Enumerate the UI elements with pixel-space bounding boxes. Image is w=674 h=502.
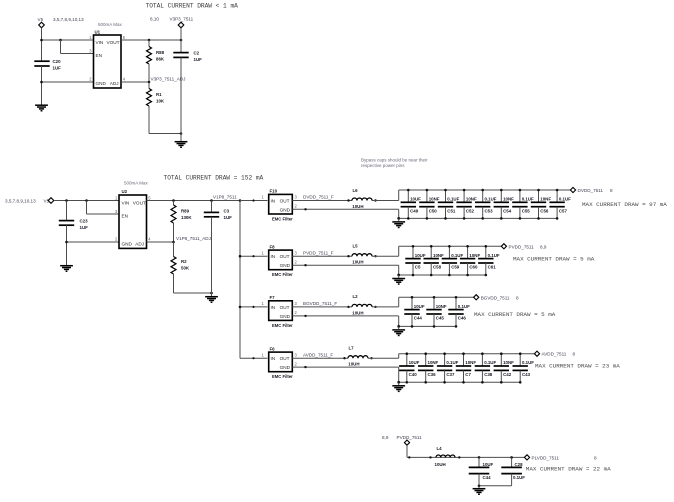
wire GND net (U2) [67, 241, 120, 243]
svg-text:AVDD_7511: AVDD_7511 [542, 352, 567, 357]
svg-text:C38: C38 [484, 372, 493, 377]
svg-text:4: 4 [148, 237, 151, 242]
capacitor C46 [448, 297, 463, 326]
resistor R2 [171, 242, 176, 293]
svg-text:10UH: 10UH [352, 310, 363, 315]
junction C55 top rail [519, 189, 522, 192]
capacitor C5 [405, 246, 420, 275]
svg-text:F8: F8 [270, 244, 276, 249]
junction C57 top rail [556, 189, 559, 192]
svg-text:C56: C56 [540, 208, 549, 213]
capacitor C60 [460, 246, 475, 275]
EMC filter F10 [269, 194, 293, 214]
svg-text:U2: U2 [122, 189, 128, 194]
junction bottom rail corner (F10 bank) [397, 217, 400, 220]
svg-text:C7: C7 [465, 372, 471, 377]
capacitor C28 [501, 457, 522, 485]
capacitor C61 [478, 246, 493, 275]
junction C60 bottom rail [466, 274, 469, 277]
junction C49 bottom rail [407, 217, 410, 220]
svg-text:C23: C23 [80, 219, 89, 224]
svg-text:EMC Filter: EMC Filter [272, 374, 293, 379]
ground (below C23) [60, 266, 73, 272]
junction C5 top rail [412, 245, 415, 248]
svg-text:GND: GND [122, 241, 133, 246]
svg-text:0.1UF: 0.1UF [513, 475, 525, 480]
svg-text:0.1UF: 0.1UF [458, 304, 470, 309]
svg-text:5: 5 [148, 195, 151, 200]
ground (bottom circuit) [473, 489, 486, 495]
inductor L5 [352, 254, 372, 257]
capacitor C3 [204, 201, 219, 217]
wire VIN net horizontal [42, 39, 94, 41]
svg-text:10K: 10K [156, 99, 165, 104]
capacitor C52 [456, 190, 471, 218]
wire C3 ground stub [211, 293, 213, 296]
inductor L4 [436, 455, 455, 457]
capacitor C59 [442, 246, 457, 275]
svg-text:2: 2 [295, 310, 298, 315]
port V5 (main regulator input) [48, 198, 54, 204]
svg-text:C59: C59 [451, 265, 460, 270]
svg-text:GND: GND [280, 208, 291, 213]
svg-text:GND: GND [96, 81, 107, 86]
wire C2 bottom [180, 57, 182, 141]
svg-text:3: 3 [295, 195, 298, 200]
capacitor C38 [475, 354, 490, 383]
svg-text:3: 3 [115, 209, 118, 214]
wire F6 OUT to inductor L7 [292, 357, 348, 359]
capacitor C54 [494, 190, 509, 218]
wire C3 bottom [211, 217, 213, 293]
junction C58 bottom rail [430, 274, 433, 277]
svg-text:8,9: 8,9 [382, 435, 389, 440]
junction C58 top rail [430, 245, 433, 248]
svg-text:IN: IN [271, 305, 276, 310]
wire ground stub (F8 bank) [398, 275, 400, 278]
regulator U2 [119, 195, 147, 248]
junction C52 bottom rail [463, 217, 466, 220]
wire divider bottom [149, 133, 181, 135]
wire V3P3 port vertical [180, 28, 182, 53]
svg-text:C57: C57 [559, 208, 568, 213]
svg-text:10UH: 10UH [348, 362, 359, 367]
wire drop to bottom rail (F8) [398, 265, 400, 275]
capacitor C37 [437, 354, 452, 383]
svg-text:MAX CURRENT DRAW = 23 mA: MAX CURRENT DRAW = 23 mA [535, 363, 620, 370]
wire ground stub (F7 bank) [398, 326, 400, 329]
svg-text:GND: GND [280, 263, 291, 268]
wire L6 to cap bank (F10) [372, 200, 399, 202]
capacitor C36 [418, 354, 433, 383]
svg-text:EN: EN [96, 53, 103, 58]
svg-text:C58: C58 [433, 265, 442, 270]
capacitor C55 [512, 190, 527, 218]
svg-text:500mA Max: 500mA Max [98, 22, 123, 27]
svg-text:PVDD_7511_F: PVDD_7511_F [303, 250, 334, 255]
wire bottom ground rail (F8 bank) [399, 274, 486, 276]
junction C7 bottom rail [462, 381, 465, 384]
capacitor C45 [426, 297, 441, 326]
junction on F7 IN wire [252, 306, 254, 308]
ground (below C20) [35, 105, 48, 111]
svg-text:EMC Filter: EMC Filter [272, 323, 293, 328]
svg-text:C60: C60 [469, 265, 478, 270]
inductor L6 [352, 198, 372, 200]
svg-text:C51: C51 [447, 208, 456, 213]
svg-text:Bypass caps should be near the: Bypass caps should be near their [361, 158, 428, 163]
svg-text:L2: L2 [353, 294, 359, 299]
port V3P3_7511 [178, 22, 184, 28]
EMC filter F8 [269, 250, 293, 270]
port BGVDD_7511 [474, 295, 479, 300]
junction divider/C2 bottom [180, 132, 183, 135]
svg-text:1: 1 [262, 352, 265, 357]
junction divider/C3 bottom [210, 292, 213, 295]
svg-text:10NF: 10NF [466, 197, 477, 202]
capacitor C50 [419, 190, 434, 218]
svg-text:10UH: 10UH [435, 462, 446, 467]
wire top power rail (F6 bank, net AVDD_7511) [399, 353, 535, 355]
svg-text:86K: 86K [156, 57, 165, 62]
svg-text:0.1UF: 0.1UF [451, 253, 463, 258]
junction on F8 GND wire [304, 264, 306, 266]
capacitor C51 [438, 190, 453, 218]
junction bus tap [239, 199, 242, 202]
svg-text:DVDD_7511_F: DVDD_7511_F [303, 195, 334, 200]
svg-text:0.1UF: 0.1UF [522, 197, 534, 202]
wire rise to top rail (F7) [398, 297, 400, 307]
svg-text:OUT: OUT [280, 254, 290, 259]
wire bottom ground rail (F7 bank) [399, 325, 456, 327]
svg-text:10NF: 10NF [433, 253, 444, 258]
svg-text:BGVDD_7511_F: BGVDD_7511_F [303, 301, 337, 306]
svg-text:F6: F6 [270, 346, 276, 351]
svg-text:8,9: 8,9 [540, 244, 547, 249]
svg-text:4: 4 [123, 77, 126, 82]
wire C20 bottom to ground [41, 66, 43, 105]
svg-text:ADJ: ADJ [110, 81, 119, 86]
port DVDD_7511 [570, 187, 575, 192]
svg-text:8: 8 [610, 188, 613, 193]
svg-text:GND: GND [280, 314, 291, 319]
svg-text:0.1UF: 0.1UF [446, 360, 458, 365]
junction C44 tap [478, 456, 481, 459]
svg-text:2: 2 [295, 204, 298, 209]
junction at L2 right terminal [374, 306, 376, 308]
svg-text:V3P3_7511: V3P3_7511 [170, 17, 194, 22]
wire L5 to cap bank (F8) [372, 255, 399, 257]
svg-text:0.1UF: 0.1UF [522, 360, 534, 365]
junction R88/R1/ADJ [148, 81, 151, 84]
junction C45 top rail [433, 296, 436, 299]
svg-text:EMC Filter: EMC Filter [272, 272, 293, 277]
svg-text:VOUT: VOUT [107, 40, 120, 45]
junction C51 top rail [444, 189, 447, 192]
svg-text:U1: U1 [95, 30, 101, 35]
wire ground stub (bottom circuit) [478, 486, 480, 488]
junction EN tap (U2) [85, 199, 88, 202]
junction at L5 left terminal [347, 255, 349, 257]
svg-text:VIN: VIN [122, 200, 130, 205]
capacitor C40 [399, 354, 414, 383]
svg-text:3,5,7,8,9,10,13: 3,5,7,8,9,10,13 [53, 17, 84, 22]
wire F7 GND to cap bank [292, 315, 398, 317]
svg-text:V1P8_7511: V1P8_7511 [213, 194, 237, 199]
svg-text:1: 1 [262, 301, 265, 306]
svg-text:1UF: 1UF [80, 225, 89, 230]
junction C40 top rail [406, 352, 409, 355]
wire drop to bottom rail (F7) [398, 316, 400, 327]
wire ground stub (F6 bank) [398, 382, 400, 385]
wire ADJ of U2 [147, 241, 174, 243]
wire C28 bottom to C44 bottom [479, 485, 512, 487]
wire F8 OUT to inductor L5 [292, 255, 352, 257]
wire bus to F10 IN [240, 200, 268, 202]
wire divider bottom (U2) [174, 292, 212, 294]
junction at PVDD corner [408, 456, 410, 458]
svg-text:C2: C2 [194, 51, 200, 56]
svg-text:OUT: OUT [280, 305, 290, 310]
junction on F6 IN wire [252, 357, 254, 359]
EMC filter F7 [269, 301, 293, 321]
capacitor C58 [424, 246, 439, 275]
svg-text:C49: C49 [410, 208, 419, 213]
svg-text:1UF: 1UF [224, 215, 233, 220]
svg-text:10UH: 10UH [352, 260, 363, 265]
svg-text:TOTAL CURRENT DRAW < 1 mA: TOTAL CURRENT DRAW < 1 mA [146, 2, 239, 9]
wire F10 GND to cap bank [292, 208, 398, 210]
svg-text:C5: C5 [415, 265, 421, 270]
junction C61 top rail [485, 245, 488, 248]
junction C56 top rail [537, 189, 540, 192]
svg-text:F10: F10 [270, 189, 278, 194]
junction C38 top rail [481, 352, 484, 355]
svg-text:EMC Filter: EMC Filter [272, 217, 293, 222]
svg-text:8: 8 [594, 455, 597, 460]
svg-text:PVDD_7511: PVDD_7511 [509, 244, 535, 249]
junction on F10 GND wire [304, 208, 306, 210]
svg-text:C50: C50 [429, 208, 438, 213]
junction bottom rail corner (F6 bank) [397, 381, 400, 384]
port AVDD_7511 [534, 351, 539, 356]
wire ground stub (F10 bank) [398, 218, 400, 221]
svg-text:1: 1 [262, 195, 265, 200]
junction R89 top [172, 199, 175, 202]
svg-text:10UF: 10UF [410, 197, 421, 202]
junction C51 bottom rail [444, 217, 447, 220]
wire top power rail (F8 bank, net PVDD_7511) [399, 245, 502, 247]
svg-text:MAX CURRENT DRAW = 5 mA: MAX CURRENT DRAW = 5 mA [513, 256, 595, 263]
inductor L7 [348, 356, 368, 358]
wire drop to bottom rail (F6) [398, 367, 400, 382]
junction L4 right terminal [458, 456, 460, 458]
svg-text:0.1UF: 0.1UF [484, 360, 496, 365]
svg-text:C43: C43 [522, 372, 531, 377]
svg-text:10NF: 10NF [503, 360, 514, 365]
svg-text:C46: C46 [458, 316, 467, 321]
junction C53 top rail [481, 189, 484, 192]
port PLVDD_7511 [524, 455, 529, 460]
svg-text:10UH: 10UH [352, 204, 363, 209]
svg-text:respective power pins: respective power pins [361, 163, 405, 168]
svg-text:R2: R2 [181, 259, 187, 264]
svg-text:BGVDD_7511: BGVDD_7511 [481, 295, 510, 300]
svg-text:10NF: 10NF [540, 197, 551, 202]
svg-text:IN: IN [271, 199, 276, 204]
capacitor C2 [173, 53, 188, 58]
resistor R89 [171, 201, 176, 243]
junction at V5/VIN [40, 39, 43, 42]
wire F8 GND to cap bank [292, 264, 398, 266]
wire L2 to cap bank (F7) [372, 306, 399, 308]
resistor R88 [147, 40, 152, 82]
junction on F10 IN wire [252, 199, 254, 201]
junction C60 top rail [466, 245, 469, 248]
junction EN tap [59, 39, 62, 42]
junction C61 bottom rail [485, 274, 488, 277]
svg-text:1UF: 1UF [53, 65, 62, 70]
svg-text:R89: R89 [181, 209, 190, 214]
svg-text:10UF: 10UF [415, 253, 426, 258]
capacitor C53 [475, 190, 490, 218]
junction C59 top rail [448, 245, 451, 248]
svg-text:ADJ: ADJ [135, 241, 144, 246]
junction on F8 IN wire [252, 255, 254, 257]
svg-text:2: 2 [115, 237, 118, 242]
port PVDD_7511 [501, 244, 506, 249]
junction C37 bottom rail [443, 381, 446, 384]
wire VOUT of U1 [121, 39, 181, 41]
svg-text:10NF: 10NF [428, 360, 439, 365]
svg-text:10NF: 10NF [436, 304, 447, 309]
svg-text:3,5,7,8,9,10,13: 3,5,7,8,9,10,13 [5, 199, 36, 204]
wire V5 to U2 VIN [54, 200, 119, 202]
junction C40 bottom rail [406, 381, 409, 384]
svg-text:1: 1 [115, 195, 118, 200]
junction C55 bottom rail [519, 217, 522, 220]
svg-text:3: 3 [89, 48, 92, 53]
wire rise to top rail (F10) [398, 190, 400, 201]
junction C54 top rail [500, 189, 503, 192]
wire bus to F7 IN [240, 306, 268, 308]
junction at L6 left terminal [347, 199, 349, 201]
svg-text:1: 1 [89, 35, 92, 40]
svg-text:IN: IN [271, 254, 276, 259]
junction C36 top rail [424, 352, 427, 355]
capacitor C56 [531, 190, 546, 218]
svg-text:L5: L5 [353, 244, 359, 249]
svg-text:VIN: VIN [96, 40, 104, 45]
svg-text:C54: C54 [503, 208, 512, 213]
svg-text:C40: C40 [409, 372, 418, 377]
port PVDD_7511 (bottom) [404, 440, 409, 445]
junction bottom rail corner (F8 bank) [397, 274, 400, 277]
svg-text:L4: L4 [437, 446, 443, 451]
svg-text:MAX CURRENT DRAW = 5 mA: MAX CURRENT DRAW = 5 mA [474, 311, 556, 318]
junction C53 bottom rail [481, 217, 484, 220]
svg-text:8: 8 [573, 352, 576, 357]
junction bottom rail corner (F7 bank) [397, 325, 400, 328]
junction R88 top [148, 39, 151, 42]
svg-text:50K: 50K [181, 266, 190, 271]
capacitor C42 [494, 354, 509, 383]
junction C43 top rail [519, 352, 522, 355]
junction at L7 left terminal [343, 357, 345, 359]
wire C23 bottom to ground [66, 225, 68, 265]
junction C59 bottom rail [448, 274, 451, 277]
wire EN branch (U2) [87, 201, 120, 215]
svg-text:3: 3 [295, 250, 298, 255]
wire top power rail (F7 bank, net BGVDD_7511) [399, 296, 474, 298]
svg-text:C37: C37 [446, 372, 455, 377]
wire bus to F8 IN [240, 255, 268, 257]
svg-text:R1: R1 [156, 92, 162, 97]
wire bottom ground rail (F10 bank) [399, 217, 557, 219]
junction C5 bottom rail [412, 274, 415, 277]
svg-text:C36: C36 [428, 372, 437, 377]
wire EN branch [61, 40, 94, 54]
junction R89/R2/ADJ [172, 241, 175, 244]
junction C43 bottom rail [519, 381, 522, 384]
junction on F6 GND wire [304, 366, 306, 368]
wire PVDD to PLVDD net [407, 456, 524, 458]
wire drop to bottom rail (F10) [398, 209, 400, 218]
svg-text:10NF: 10NF [465, 360, 476, 365]
junction C56 bottom rail [537, 217, 540, 220]
capacitor C44 [469, 457, 490, 485]
svg-text:8: 8 [516, 295, 519, 300]
junction bus at F8 [239, 255, 242, 258]
capacitor C23 [59, 201, 74, 226]
junction C38 bottom rail [481, 381, 484, 384]
capacitor C49 [401, 190, 416, 218]
svg-text:C44: C44 [483, 475, 492, 480]
junction C46 bottom rail [455, 325, 458, 328]
svg-text:2: 2 [89, 77, 92, 82]
svg-text:3: 3 [295, 352, 298, 357]
junction C20/GND [40, 81, 43, 84]
wire L7 to cap bank (F6) [368, 357, 399, 359]
wire top power rail (F10 bank, net DVDD_7511) [399, 189, 571, 191]
ground (F8 bank) [392, 279, 405, 285]
svg-text:8,10: 8,10 [150, 17, 159, 22]
svg-text:3: 3 [295, 301, 298, 306]
wire V5 vertical [41, 28, 43, 61]
svg-text:0.1UF: 0.1UF [447, 197, 459, 202]
wire GND net horizontal (top reg) [42, 81, 94, 83]
svg-text:130K: 130K [181, 215, 192, 220]
svg-text:C3: C3 [224, 208, 230, 213]
junction C23 tap [65, 199, 68, 202]
ground (F6 bank) [392, 386, 405, 392]
junction at L6 right terminal [374, 199, 376, 201]
svg-text:R88: R88 [156, 50, 165, 55]
junction C23/GND (U2) [65, 241, 68, 244]
junction C50 top rail [426, 189, 429, 192]
svg-text:10NF: 10NF [469, 253, 480, 258]
svg-text:C44: C44 [414, 316, 423, 321]
svg-text:2: 2 [295, 361, 298, 366]
svg-text:PLVDD_7511: PLVDD_7511 [532, 455, 560, 460]
junction bus at F7 [239, 306, 242, 309]
svg-text:2: 2 [295, 259, 298, 264]
svg-text:10UF: 10UF [409, 360, 420, 365]
junction C42 bottom rail [500, 381, 503, 384]
wire rise to top rail (F8) [398, 246, 400, 256]
svg-text:C28: C28 [515, 462, 524, 467]
svg-text:10UF: 10UF [483, 462, 494, 467]
